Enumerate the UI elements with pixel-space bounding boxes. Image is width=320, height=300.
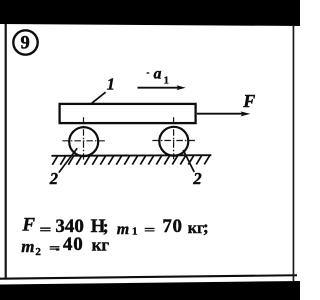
left wheel centerlines bbox=[62, 117, 105, 159]
leader line to board bbox=[91, 92, 105, 103]
svg-text:;: ; bbox=[103, 217, 109, 236]
svg-text:1: 1 bbox=[107, 75, 115, 94]
bottom black scan bar bbox=[0, 281, 300, 300]
left wheel (roller 2) bbox=[69, 127, 98, 156]
svg-text:9: 9 bbox=[20, 34, 29, 54]
svg-text:F: F bbox=[21, 214, 35, 235]
svg-text:a: a bbox=[154, 66, 162, 83]
svg-text:кг: кг bbox=[92, 235, 110, 254]
right leader line bbox=[183, 150, 194, 172]
given data text line 1 bbox=[21, 214, 208, 238]
top black scan bar bbox=[0, 0, 300, 26]
bottom page-edge line bbox=[0, 274, 297, 280]
svg-text:кг: кг bbox=[188, 220, 204, 237]
svg-text:;: ; bbox=[203, 218, 209, 237]
force arrow F bbox=[197, 111, 251, 116]
right wheel centerlines bbox=[152, 117, 195, 159]
svg-text:F: F bbox=[242, 91, 255, 111]
svg-text:1: 1 bbox=[164, 75, 169, 86]
svg-text:2: 2 bbox=[35, 246, 41, 258]
left leader line bbox=[59, 148, 77, 172]
label a1 bbox=[147, 66, 169, 87]
svg-text:40: 40 bbox=[63, 234, 84, 255]
acceleration arrow a1 bbox=[138, 85, 186, 90]
svg-text:70: 70 bbox=[162, 216, 182, 237]
right page-edge line bbox=[293, 26, 295, 281]
ground line bbox=[51, 154, 211, 157]
given data text line 2 bbox=[21, 234, 109, 258]
svg-text:m: m bbox=[117, 221, 129, 238]
ground hatching bbox=[52, 156, 209, 165]
board (body 1) rectangle bbox=[60, 104, 196, 123]
svg-text:1: 1 bbox=[132, 226, 138, 238]
right wheel (roller 2) bbox=[159, 127, 188, 156]
left page-edge line bbox=[5, 24, 7, 278]
problem number circle 9 bbox=[13, 30, 37, 54]
svg-text:2: 2 bbox=[49, 169, 58, 188]
svg-text:m: m bbox=[21, 237, 34, 256]
